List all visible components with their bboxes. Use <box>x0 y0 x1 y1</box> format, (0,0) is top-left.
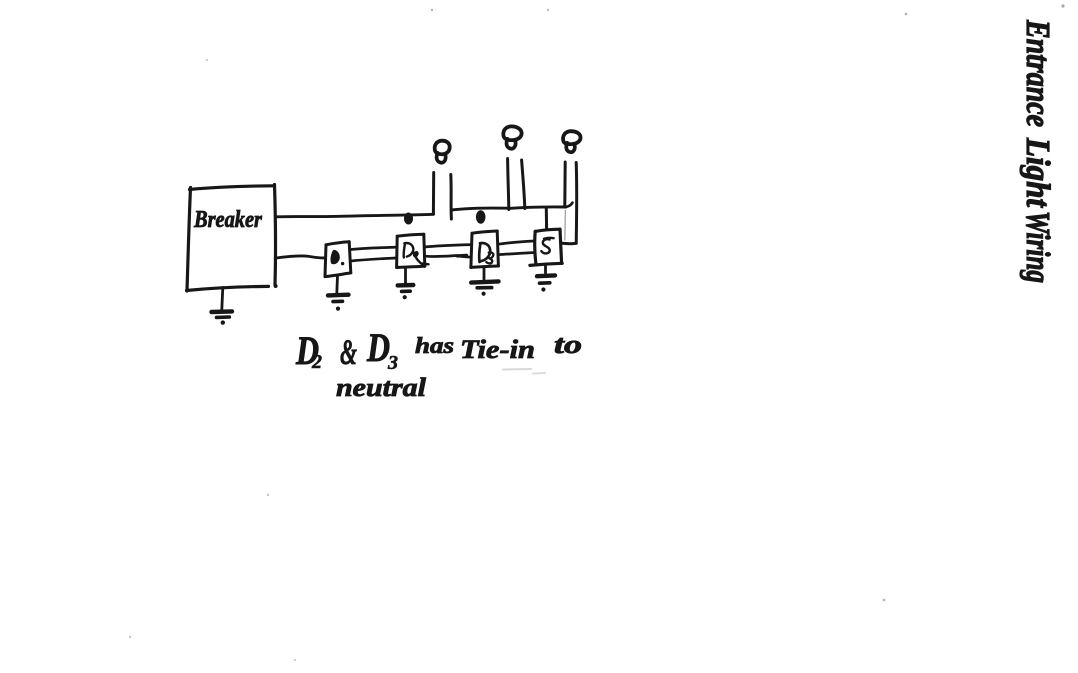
svg-text:neutral: neutral <box>336 373 427 402</box>
svg-text:Tie-in: Tie-in <box>460 335 535 364</box>
svg-text:3: 3 <box>387 352 398 374</box>
svg-text:Entrance: Entrance <box>1019 19 1057 127</box>
svg-text:Breaker: Breaker <box>193 207 262 233</box>
svg-text:D: D <box>366 325 390 370</box>
svg-text:to: to <box>554 330 582 359</box>
svg-text:&: & <box>340 332 357 372</box>
svg-text:has: has <box>415 333 454 358</box>
svg-text:2: 2 <box>311 351 322 373</box>
svg-text:Wiring: Wiring <box>1019 211 1057 283</box>
svg-text:Light: Light <box>1019 137 1057 208</box>
